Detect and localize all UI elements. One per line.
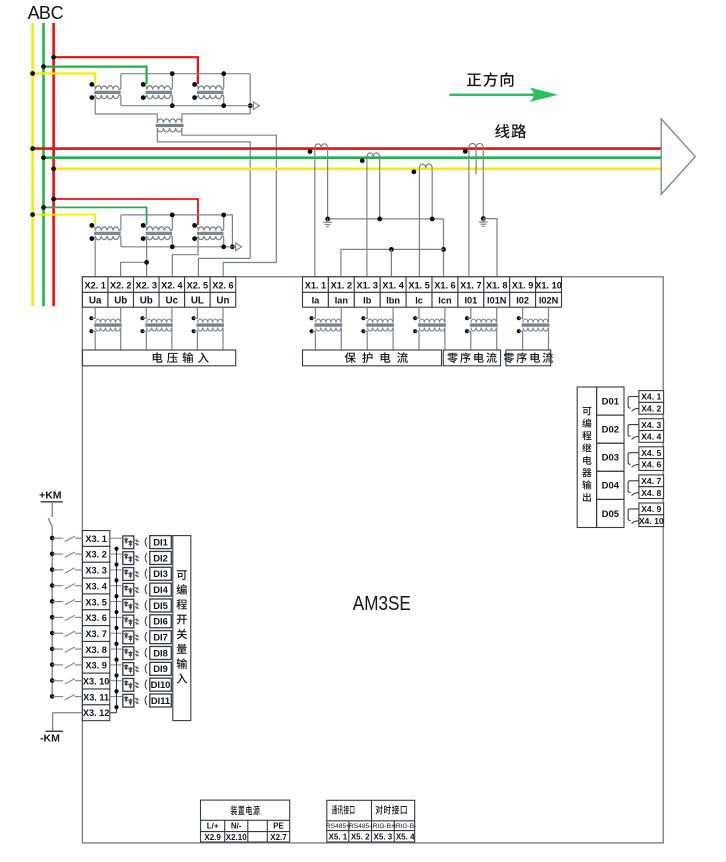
svg-text:X4. 4: X4. 4 [641, 432, 661, 442]
svg-text:I02N: I02N [539, 296, 559, 306]
svg-text:X3. 1: X3. 1 [85, 534, 106, 544]
svg-text:B: B [39, 3, 51, 23]
svg-text:X5. 3: X5. 3 [374, 833, 393, 842]
svg-text:X1. 3: X1. 3 [357, 280, 378, 290]
svg-text:IRIG-B-: IRIG-B- [394, 823, 416, 830]
svg-text:PE: PE [273, 822, 284, 831]
svg-text:D05: D05 [602, 509, 620, 520]
svg-text:DI5: DI5 [153, 600, 168, 611]
svg-text:X3. 2: X3. 2 [85, 550, 106, 560]
svg-text:Un: Un [216, 296, 229, 307]
svg-text:X2. 5: X2. 5 [187, 280, 208, 290]
svg-text:X3. 6: X3. 6 [85, 613, 106, 623]
svg-text:DI3: DI3 [153, 568, 168, 579]
svg-text:X3. 4: X3. 4 [85, 581, 107, 591]
svg-text:N/-: N/- [231, 822, 242, 831]
svg-text:Ub: Ub [140, 296, 153, 307]
svg-text:X3. 7: X3. 7 [85, 629, 106, 639]
svg-text:X2.10: X2.10 [226, 833, 247, 842]
svg-text:Ia: Ia [312, 296, 321, 306]
svg-text:C: C [51, 3, 64, 23]
svg-text:X4. 6: X4. 6 [641, 460, 661, 470]
svg-text:X2. 3: X2. 3 [136, 280, 157, 290]
svg-text:AM3SE: AM3SE [353, 592, 411, 615]
svg-text:D04: D04 [602, 481, 620, 492]
svg-text:DI6: DI6 [153, 616, 168, 627]
svg-text:-KM: -KM [40, 733, 60, 745]
svg-text:X1. 9: X1. 9 [512, 280, 533, 290]
svg-text:X1. 5: X1. 5 [408, 280, 429, 290]
svg-text:X3. 11: X3. 11 [83, 692, 109, 702]
svg-text:X4. 1: X4. 1 [641, 392, 661, 402]
svg-text:X4. 8: X4. 8 [641, 488, 661, 498]
svg-text:Ua: Ua [89, 296, 102, 307]
svg-text:X4. 10: X4. 10 [639, 516, 664, 526]
svg-text:RS485-: RS485- [349, 823, 371, 830]
svg-text:X2. 4: X2. 4 [161, 280, 183, 290]
svg-text:D01: D01 [602, 396, 620, 407]
svg-text:Ic: Ic [415, 296, 423, 306]
svg-text:DI9: DI9 [153, 663, 168, 674]
svg-text:I02: I02 [516, 296, 529, 306]
svg-text:DI1: DI1 [153, 537, 168, 548]
svg-text:X2.9: X2.9 [204, 833, 221, 842]
svg-text:X2. 2: X2. 2 [110, 280, 131, 290]
svg-text:X5. 1: X5. 1 [329, 833, 348, 842]
svg-text:X5. 4: X5. 4 [396, 833, 415, 842]
svg-text:DI10: DI10 [151, 679, 171, 690]
svg-text:X1. 7: X1. 7 [460, 280, 481, 290]
svg-text:X3. 5: X3. 5 [85, 597, 106, 607]
svg-text:X1. 4: X1. 4 [382, 280, 404, 290]
svg-text:X1. 1: X1. 1 [305, 280, 326, 290]
svg-text:X3. 3: X3. 3 [85, 566, 106, 576]
svg-text:X4. 7: X4. 7 [641, 476, 661, 486]
svg-text:I01: I01 [464, 296, 477, 306]
svg-text:IRIG-B+: IRIG-B+ [371, 823, 395, 830]
svg-text:X4. 9: X4. 9 [641, 504, 661, 514]
svg-text:I01N: I01N [487, 296, 507, 306]
svg-text:DI11: DI11 [151, 695, 170, 706]
svg-text:RS485+: RS485+ [326, 823, 350, 830]
svg-text:X4. 5: X4. 5 [641, 448, 661, 458]
svg-text:X2.7: X2.7 [270, 833, 287, 842]
svg-text:DI8: DI8 [153, 647, 168, 658]
svg-text:UL: UL [191, 296, 204, 307]
svg-text:+KM: +KM [39, 490, 62, 502]
svg-text:X1. 10: X1. 10 [535, 280, 562, 290]
svg-text:L/+: L/+ [207, 822, 219, 831]
svg-text:X4. 2: X4. 2 [641, 404, 661, 414]
svg-text:DI4: DI4 [153, 584, 168, 595]
svg-text:X1. 6: X1. 6 [434, 280, 455, 290]
svg-text:X1. 8: X1. 8 [486, 280, 507, 290]
svg-text:X2. 1: X2. 1 [84, 280, 105, 290]
svg-text:Ub: Ub [114, 296, 127, 307]
svg-text:A: A [28, 3, 40, 23]
svg-text:Ian: Ian [335, 296, 349, 306]
svg-text:D02: D02 [602, 424, 619, 435]
svg-text:Ib: Ib [363, 296, 372, 306]
svg-text:X3. 12: X3. 12 [83, 708, 110, 718]
svg-text:X2. 6: X2. 6 [212, 280, 233, 290]
svg-text:Icn: Icn [438, 296, 452, 306]
svg-text:X3. 10: X3. 10 [83, 676, 110, 686]
svg-text:Ibn: Ibn [386, 296, 400, 306]
svg-text:D03: D03 [602, 453, 619, 464]
svg-text:Uc: Uc [166, 296, 179, 307]
svg-text:X5. 2: X5. 2 [351, 833, 370, 842]
svg-text:DI2: DI2 [153, 552, 168, 563]
svg-text:X3. 9: X3. 9 [85, 661, 106, 671]
svg-text:DI7: DI7 [153, 632, 168, 643]
svg-text:X4. 3: X4. 3 [641, 420, 661, 430]
svg-text:X1. 2: X1. 2 [331, 280, 352, 290]
svg-text:X3. 8: X3. 8 [85, 645, 106, 655]
